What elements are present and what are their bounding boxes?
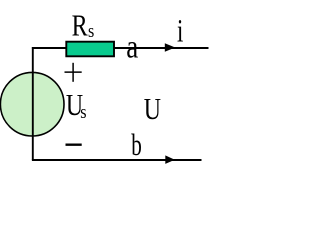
svg-text:s: s — [88, 20, 94, 42]
svg-text:U: U — [144, 91, 161, 126]
voltage source U_s (circle) — [0, 72, 64, 136]
arrowhead: current i on top wire — [165, 43, 175, 51]
svg-text:b: b — [131, 127, 142, 162]
wire: bottom horizontal — [32, 159, 202, 161]
wire: vertical left branch through source — [32, 47, 34, 160]
plus sign of source — [65, 71, 82, 73]
minus sign of source — [66, 143, 82, 145]
arrowhead: bottom wire (a-b direction) — [165, 155, 175, 164]
svg-text:R: R — [72, 9, 89, 42]
svg-text:i: i — [177, 13, 183, 49]
svg-text:s: s — [80, 101, 86, 123]
resistor R_s (box) — [66, 42, 114, 57]
wire: top horizontal — [32, 47, 209, 49]
svg-text:a: a — [126, 28, 138, 65]
